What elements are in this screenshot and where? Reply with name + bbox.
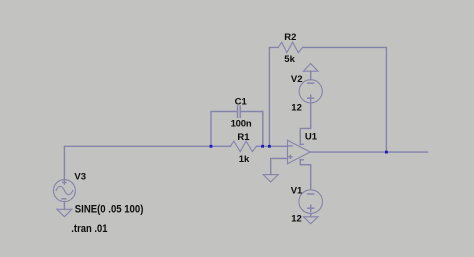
svg-text:12: 12 [291,214,302,225]
wire non-inverting input to ground [271,158,288,174]
wire R1 right to op-amp inverting input [263,145,288,147]
wire V3 bottom to ground [63,202,65,210]
V3 sine squiggle [56,186,73,195]
svg-text:C1: C1 [235,97,248,108]
voltage source V1 circle [299,190,323,214]
junction R2-bottom [268,145,271,148]
V2 plus mark [308,95,314,101]
wire V2 top to flipped ground [310,71,312,80]
junction node A [210,145,213,148]
op-amp U1 triangle [288,140,311,163]
wire C1 right down to net [240,112,263,147]
wire V3 top to node A [64,146,211,180]
voltage source V2 circle [299,80,322,103]
V1 plus mark [308,205,314,211]
svg-text:U1: U1 [305,132,318,143]
wire node B up to R2 left [269,47,278,146]
op-amp V+ power stem [300,103,310,145]
op-amp V+ mark [301,143,303,145]
svg-text:R2: R2 [284,32,296,43]
svg-text:5k: 5k [284,54,295,65]
junction output [385,151,388,154]
wire V1 bottom to ground [310,213,312,216]
op-amp V- power stem [300,160,310,190]
svg-text:12: 12 [291,102,302,113]
op-amp plus input mark [289,155,292,158]
op-amp V- mark [301,159,303,161]
V2 minus mark [308,82,314,84]
V1 minus mark [308,193,314,195]
svg-text:SINE(0 .05 100): SINE(0 .05 100) [75,204,144,216]
svg-text:100n: 100n [231,118,252,129]
junction C1-right [261,145,264,148]
wire R2 right to top-right corner and down [303,47,387,152]
svg-text:R1: R1 [237,132,250,143]
wire node A up to C1 left [211,112,238,147]
V3 minus mark [62,198,66,200]
op-amp minus input mark [289,145,292,147]
capacitor C1 [238,106,241,117]
resistor R2 [278,42,302,52]
svg-text:1k: 1k [239,154,250,165]
voltage source V3 circle [53,180,75,202]
svg-text:.tran .01: .tran .01 [71,223,107,235]
ground below V3 [57,209,72,216]
svg-text:V2: V2 [291,74,303,85]
flipped ground above V2 [303,64,318,72]
ground below V1 [304,217,319,224]
svg-text:V3: V3 [74,171,86,182]
wire op-amp output [310,151,427,153]
V3 plus mark [63,181,66,184]
resistor R1 [211,145,230,147]
svg-text:V1: V1 [291,185,303,196]
ground at op-amp + input [263,175,278,182]
